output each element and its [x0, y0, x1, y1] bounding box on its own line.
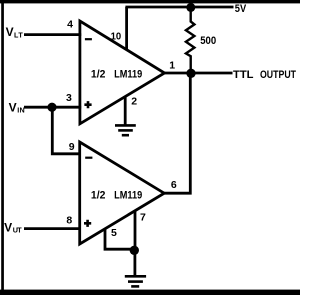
svg-text:3: 3 — [66, 92, 72, 104]
svg-text:LM119: LM119 — [114, 189, 142, 201]
svg-text:LT: LT — [14, 31, 23, 40]
svg-text:500: 500 — [200, 35, 216, 47]
svg-text:10: 10 — [111, 30, 122, 42]
svg-text:5: 5 — [111, 227, 117, 239]
svg-text:7: 7 — [140, 211, 146, 223]
svg-text:2: 2 — [131, 96, 137, 108]
svg-text:TTL: TTL — [233, 69, 254, 81]
svg-text:5V: 5V — [235, 3, 247, 15]
svg-text:1: 1 — [169, 59, 175, 71]
svg-text:9: 9 — [69, 141, 75, 153]
svg-text:OUTPUT: OUTPUT — [260, 69, 296, 81]
svg-text:UT: UT — [13, 226, 22, 235]
svg-text:V: V — [6, 25, 14, 39]
svg-text:1/2: 1/2 — [91, 189, 106, 201]
svg-text:V: V — [4, 220, 12, 234]
svg-text:1/2: 1/2 — [91, 68, 106, 80]
svg-text:V: V — [9, 100, 17, 114]
svg-text:LM119: LM119 — [114, 68, 142, 80]
svg-text:6: 6 — [171, 179, 177, 191]
svg-text:IN: IN — [17, 106, 24, 115]
svg-text:8: 8 — [66, 214, 72, 226]
svg-text:4: 4 — [67, 18, 73, 30]
